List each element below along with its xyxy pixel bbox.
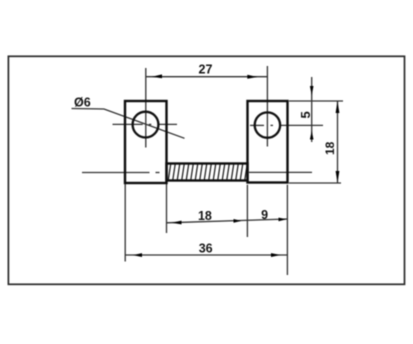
svg-text:18: 18 [323, 141, 337, 155]
svg-text:5: 5 [298, 111, 313, 118]
svg-text:Ø6: Ø6 [74, 96, 91, 110]
svg-text:9: 9 [261, 208, 268, 222]
svg-text:18: 18 [198, 209, 212, 223]
svg-text:36: 36 [199, 241, 213, 255]
svg-text:27: 27 [199, 62, 213, 76]
